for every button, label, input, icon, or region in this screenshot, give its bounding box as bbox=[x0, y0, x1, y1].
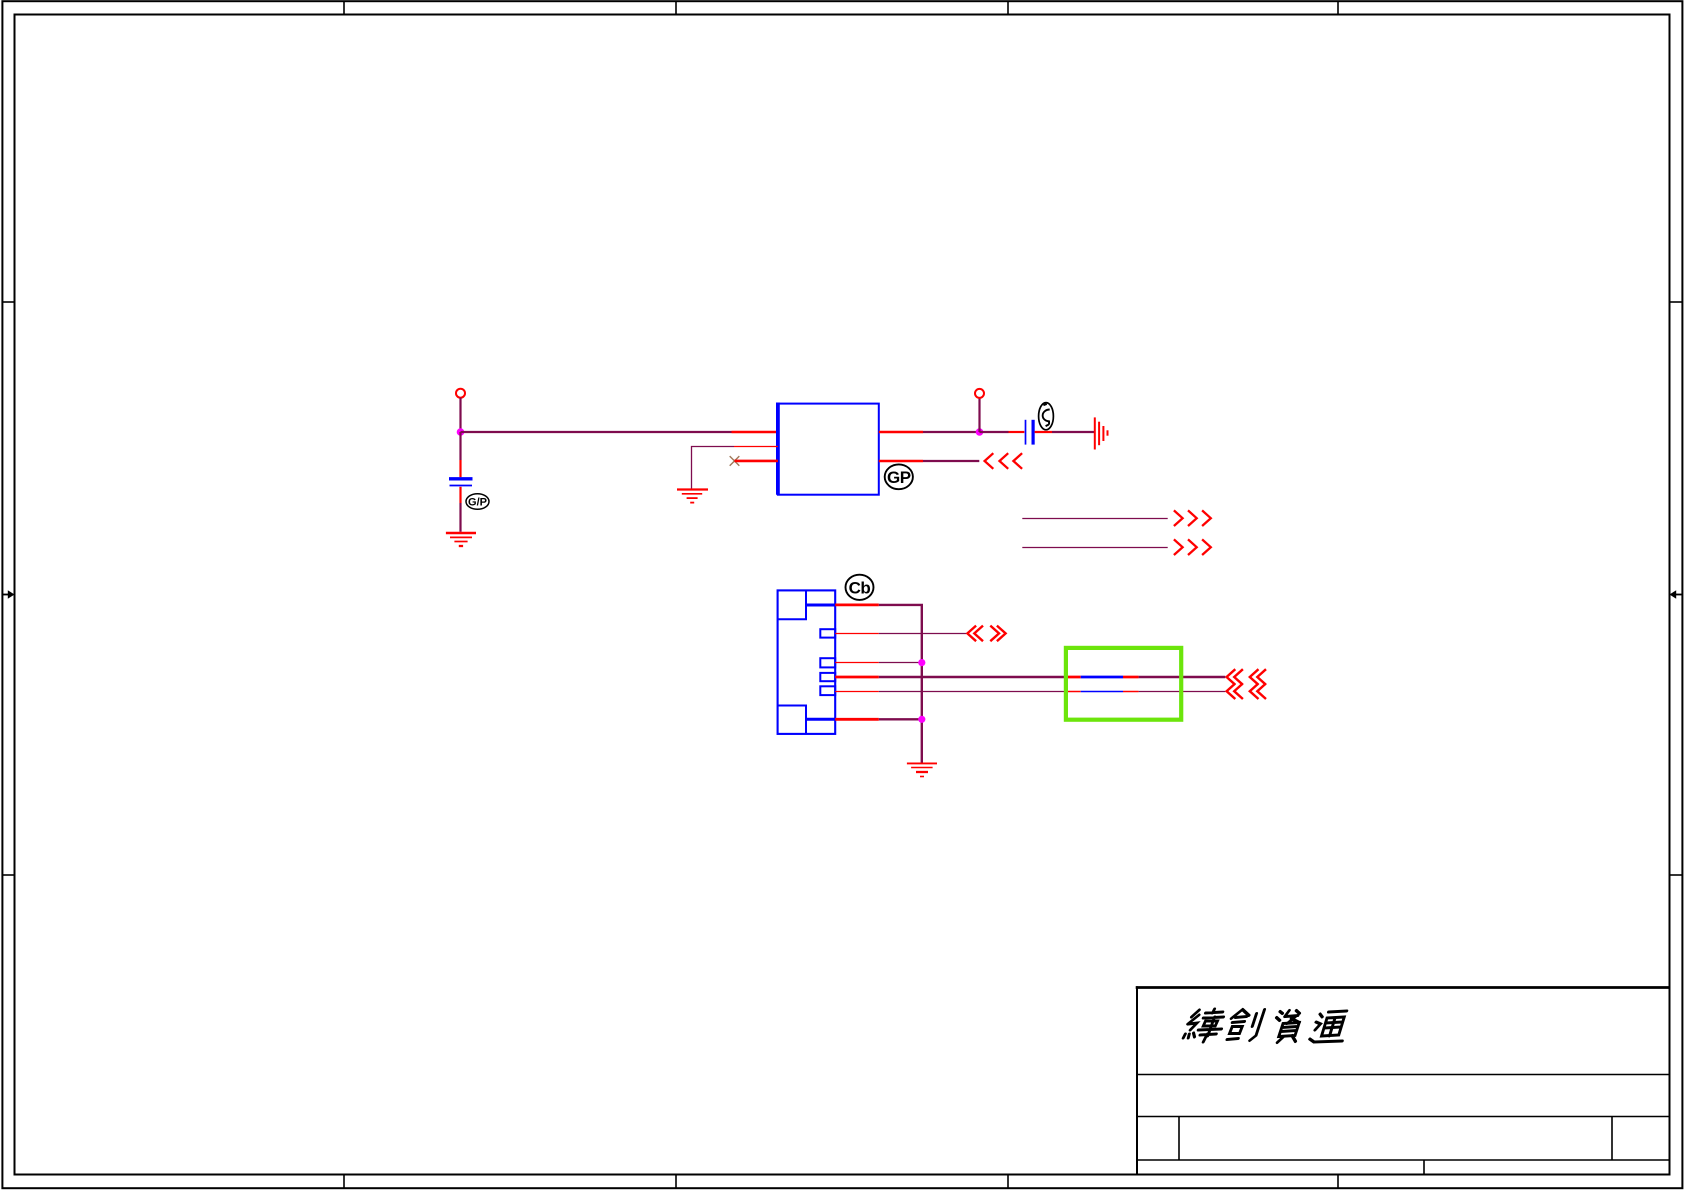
wire pin1 to bus bbox=[879, 605, 922, 763]
wire U1 pin 4 to node B bbox=[923, 431, 980, 433]
J1 pin 1 stub bbox=[835, 604, 879, 607]
J1 pin 2 stub bbox=[835, 633, 879, 635]
C2 left lead bbox=[1009, 431, 1025, 433]
label GP bbox=[885, 464, 913, 489]
J1 pin 1 bar bbox=[806, 604, 835, 607]
net5 highlighted red segment bbox=[1064, 691, 1080, 693]
C2 right lead bbox=[1035, 431, 1052, 433]
power terminal P2 bbox=[975, 389, 984, 398]
ground (bus bottom) bbox=[907, 763, 937, 776]
wire pin5 (thin net) bbox=[879, 691, 1065, 693]
J1 pin 3 stub bbox=[835, 662, 879, 664]
off-page connector << (net 5) bbox=[1227, 683, 1266, 699]
floating net 2 bbox=[1022, 547, 1167, 549]
wire node B to C2 bbox=[980, 431, 1009, 433]
C1 top lead bbox=[459, 460, 461, 477]
label G/P bbox=[466, 494, 489, 510]
ground (U1 pin 2) bbox=[677, 490, 708, 503]
floating net 1 bbox=[1022, 518, 1167, 520]
wire node A to U1 pin 1 bbox=[461, 431, 732, 433]
node B junction bbox=[976, 428, 984, 436]
IC U1 bbox=[778, 403, 879, 495]
U1 pin 4 stub (right top) bbox=[879, 431, 923, 434]
wire pin6 to bus bbox=[879, 718, 922, 720]
wire U1 pin 2 to ground bbox=[692, 447, 735, 489]
J1 pin 5 stub bbox=[835, 691, 879, 693]
junction pin3/bus bbox=[918, 659, 925, 666]
wire from P1 to node A bbox=[459, 398, 461, 432]
ground (below C1) bbox=[446, 533, 476, 546]
junction pin6/bus bbox=[918, 716, 925, 723]
svg-text:G/P: G/P bbox=[468, 497, 487, 509]
off-page connector <<< bbox=[985, 453, 1023, 469]
svg-text:GP: GP bbox=[887, 468, 911, 487]
port symbol (left chevrons) bbox=[967, 626, 983, 642]
U1 pin 5 stub (right bottom) bbox=[879, 460, 923, 463]
wire node A down to C1 bbox=[459, 432, 461, 460]
wire pin5 continues bbox=[1139, 691, 1226, 693]
J1 top-left cavity bbox=[778, 590, 806, 619]
no-connect X on U1 pin 3 bbox=[730, 456, 740, 466]
J1 pin 2 box bbox=[820, 629, 835, 637]
net4 highlighted red segment bbox=[1064, 676, 1080, 679]
label Cb bbox=[846, 575, 874, 600]
company logo text (hand-drawn CJK strokes) bbox=[1182, 1009, 1349, 1043]
J1 bottom-left cavity bbox=[778, 706, 806, 734]
wire C1 to ground bbox=[459, 503, 461, 532]
net4 highlighted red segment 2 bbox=[1123, 676, 1139, 679]
wire pin4 (thick net) bbox=[879, 676, 1065, 678]
capacitor C1 bbox=[449, 479, 473, 486]
off-page connector >>> (net 1) bbox=[1174, 510, 1211, 526]
net5 highlighted red segment 2 bbox=[1123, 691, 1139, 693]
U1 pin 2 stub bbox=[734, 446, 778, 448]
wire pin2 to port bbox=[879, 633, 967, 635]
wire U1 pin 5 to off-page bbox=[923, 460, 979, 462]
C1 bottom lead bbox=[459, 487, 461, 503]
wire pin3 to bus bbox=[879, 662, 922, 664]
wire node B to P2 bbox=[978, 398, 980, 432]
wire C2 to earth bbox=[1052, 431, 1094, 433]
J1 pin 4 box bbox=[820, 673, 835, 681]
wire pin4 continues bbox=[1139, 676, 1226, 678]
off-page connector >>> (net 2) bbox=[1174, 539, 1211, 555]
connector J1 body bbox=[778, 590, 836, 734]
port symbol (right chevrons) bbox=[990, 626, 1005, 642]
U1 pin 1 stub bbox=[732, 431, 778, 434]
net4 highlighted blue segment bbox=[1081, 676, 1123, 679]
J1 pin 6 stub bbox=[835, 718, 879, 721]
J1 pin 5 box bbox=[820, 686, 835, 695]
J1 pin 6 bar bbox=[806, 718, 835, 721]
power terminal P1 bbox=[456, 389, 465, 398]
node A junction bbox=[457, 428, 465, 436]
J1 pin 3 box bbox=[820, 658, 835, 667]
earth ground (rotated) bbox=[1095, 417, 1108, 449]
TITLE BLOCK (frame) bbox=[1136, 986, 1670, 1174]
off-page connector << (net 4) bbox=[1227, 669, 1266, 685]
capacitor C2 bbox=[1026, 420, 1034, 445]
highlight box (green) bbox=[1066, 648, 1181, 720]
label C1 (rotated) bbox=[1039, 403, 1054, 430]
svg-text:Cb: Cb bbox=[849, 579, 871, 598]
J1 pin 4 stub bbox=[835, 676, 879, 679]
net5 highlighted blue segment bbox=[1081, 691, 1123, 693]
U1 pin 3 stub bbox=[735, 460, 778, 463]
